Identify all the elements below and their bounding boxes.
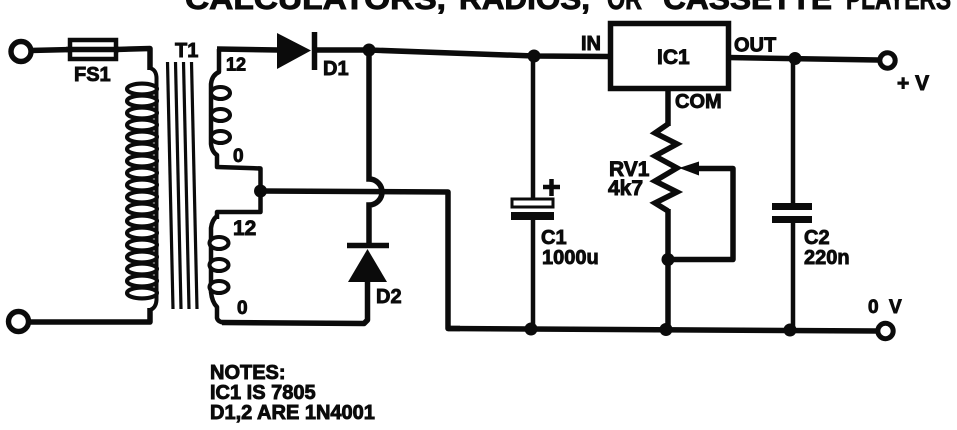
wire: top-left terminal to fuse — [30, 50, 72, 51]
svg-text:V: V — [889, 297, 902, 318]
svg-text:0: 0 — [868, 297, 879, 318]
svg-text:D1: D1 — [323, 58, 349, 80]
wire: fuse to transformer primary top — [116, 49, 150, 71]
wire: top rail junction to IC1 IN — [369, 50, 610, 57]
fuse FS1 — [66, 40, 119, 59]
svg-text:CASSETTE: CASSETTE — [663, 0, 832, 16]
terminal: AC input bottom-left — [9, 312, 29, 332]
node: centre tap junction — [254, 185, 267, 198]
svg-text:12: 12 — [233, 217, 256, 240]
wire: IC1 OUT to +V terminal — [728, 58, 878, 61]
svg-text:OUT: OUT — [734, 35, 776, 57]
svg-text:FS1: FS1 — [74, 64, 111, 86]
terminal: 0V output — [878, 323, 893, 338]
node: D1/D2 cathode junction — [363, 44, 376, 57]
svg-text:220n: 220n — [804, 247, 850, 269]
svg-text:NOTES:: NOTES: — [210, 362, 286, 384]
capacitor C2 — [772, 59, 812, 331]
title (cut off at top edge) — [185, 0, 951, 16]
wire: D2 anode to transformer bottom 0 — [222, 280, 368, 324]
wire: primary bottom to bottom-left terminal — [29, 308, 150, 322]
capacitor C1 (electrolytic) — [511, 56, 560, 329]
0V rail — [448, 329, 878, 332]
svg-text:D1,2 ARE 1N4001: D1,2 ARE 1N4001 — [210, 402, 375, 424]
terminal: +V output — [880, 53, 895, 68]
potentiometer RV1 (zigzag) — [655, 124, 677, 211]
transformer T1 primary winding — [127, 68, 157, 310]
RV1 wiper arrow — [670, 162, 733, 260]
node: C2 bottom junction — [784, 324, 797, 337]
svg-text:D2: D2 — [376, 286, 402, 308]
wire: top secondary to D1 anode — [217, 49, 278, 50]
svg-text:CALCULATORS,: CALCULATORS, — [185, 0, 446, 16]
regulator IC1 — [611, 24, 729, 89]
node: RV1 bottom rail junction — [660, 323, 673, 336]
svg-text:12: 12 — [226, 55, 246, 75]
transformer secondary winding (top, 12-0) — [211, 49, 261, 169]
node: OUT / C2 junction — [789, 52, 802, 65]
node: RV1 wiper-bottom junction — [662, 253, 675, 266]
transformer secondary winding (bottom, 12-0) — [210, 216, 229, 323]
svg-text:IN: IN — [581, 33, 601, 55]
svg-text:T1: T1 — [175, 40, 198, 62]
svg-text:RADIOS,: RADIOS, — [459, 0, 590, 16]
svg-text:PLAYERS: PLAYERS — [846, 0, 951, 16]
wire: junction down to D2 with hop over centre-tap wire — [369, 50, 382, 246]
svg-text:1000u: 1000u — [542, 247, 599, 269]
wire: centre tap to 0V rail — [261, 191, 461, 329]
svg-text:IC1: IC1 — [657, 46, 690, 69]
wire: D1 cathode to +V rail — [314, 47, 370, 53]
notes text — [210, 362, 375, 424]
diode D2 — [347, 246, 389, 283]
wire: IC1 COM down to RV1 — [665, 89, 671, 126]
svg-text:C1: C1 — [541, 227, 567, 249]
centre-tap wires — [217, 169, 261, 220]
wire: RV1 bottom to 0V rail — [665, 209, 671, 330]
diode D1 — [277, 32, 315, 70]
svg-text:OR: OR — [607, 0, 642, 16]
svg-text:IC1 IS 7805: IC1 IS 7805 — [210, 382, 316, 404]
svg-text:+ V: + V — [897, 72, 929, 95]
svg-text:0: 0 — [237, 298, 248, 319]
node: C1 bottom junction — [525, 323, 538, 336]
node: C1 / IN junction — [528, 50, 541, 63]
terminal: AC input top-left — [11, 42, 31, 62]
svg-text:4k7: 4k7 — [608, 177, 643, 200]
svg-text:C2: C2 — [804, 227, 830, 249]
svg-text:COM: COM — [675, 91, 722, 113]
svg-text:0: 0 — [233, 146, 244, 167]
transformer core — [168, 62, 198, 309]
